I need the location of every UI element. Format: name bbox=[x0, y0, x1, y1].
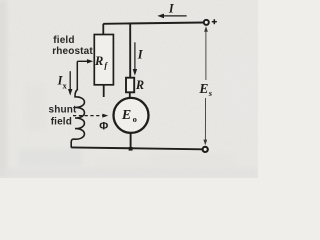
label: field rheostat bbox=[52, 35, 93, 57]
svg-text:E: E bbox=[121, 108, 131, 123]
armature (generator) circle Eo bbox=[114, 98, 149, 133]
svg-text:R: R bbox=[94, 54, 103, 68]
Es measurement line with arrows bbox=[203, 26, 208, 145]
wire: bottom horizontal bbox=[71, 147, 202, 149]
label: shunt field bbox=[49, 105, 77, 128]
resistor Rf (field rheostat box) bbox=[94, 35, 113, 85]
wire: branch from top wire down to R bbox=[129, 23, 131, 78]
terminal (bottom right) bbox=[203, 147, 208, 152]
svg-text:E: E bbox=[198, 81, 208, 96]
wire: armature bottom to bottom wire bbox=[130, 133, 132, 149]
wire: R to armature bbox=[129, 92, 131, 98]
terminal + (top right) bbox=[204, 20, 209, 25]
svg-text:field: field bbox=[53, 35, 74, 46]
flux arrow (dashed) bbox=[73, 115, 103, 117]
svg-text:rheostat: rheostat bbox=[52, 46, 93, 57]
plus sign bbox=[212, 19, 217, 24]
wire: from wiper down to shunt field coil bbox=[76, 61, 78, 89]
current arrow Ix bbox=[68, 71, 72, 95]
svg-text:field: field bbox=[51, 116, 72, 127]
svg-text:shunt: shunt bbox=[49, 105, 77, 116]
label Es bbox=[198, 81, 212, 98]
resistor R (armature resistance box) bbox=[126, 78, 134, 93]
wire: top horizontal from rheostat branch to + terminal bbox=[103, 23, 203, 24]
inductor: shunt field coil bbox=[71, 89, 84, 148]
wire: rheostat bottom stub (unused lead) bbox=[103, 85, 105, 97]
current arrow I (branch) bbox=[133, 42, 137, 75]
svg-text:R: R bbox=[135, 78, 144, 92]
svg-text:s: s bbox=[208, 88, 213, 98]
current arrow I (top) bbox=[157, 14, 186, 19]
svg-text:o: o bbox=[133, 114, 137, 124]
junction bbox=[129, 147, 133, 151]
svg-text:Φ: Φ bbox=[99, 120, 108, 132]
wire: rheostat top lead bbox=[102, 24, 104, 35]
label Rf bbox=[94, 54, 108, 70]
scan background bbox=[0, 0, 258, 178]
label Eo bbox=[121, 108, 137, 124]
rheostat wiper arrow into Rf bbox=[77, 59, 93, 63]
label Ix bbox=[57, 73, 68, 90]
